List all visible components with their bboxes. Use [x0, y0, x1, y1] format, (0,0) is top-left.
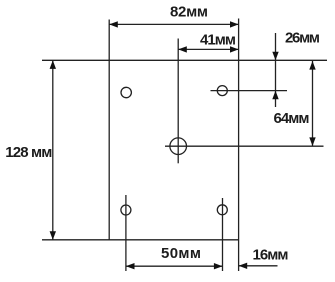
svg-text:50мм: 50мм [161, 245, 201, 262]
svg-text:41мм: 41мм [200, 32, 236, 49]
svg-text:82мм: 82мм [170, 4, 208, 21]
svg-text:26мм: 26мм [285, 30, 320, 47]
svg-text:128 мм: 128 мм [5, 144, 52, 161]
svg-text:64мм: 64мм [274, 110, 310, 127]
svg-text:16мм: 16мм [253, 247, 289, 264]
